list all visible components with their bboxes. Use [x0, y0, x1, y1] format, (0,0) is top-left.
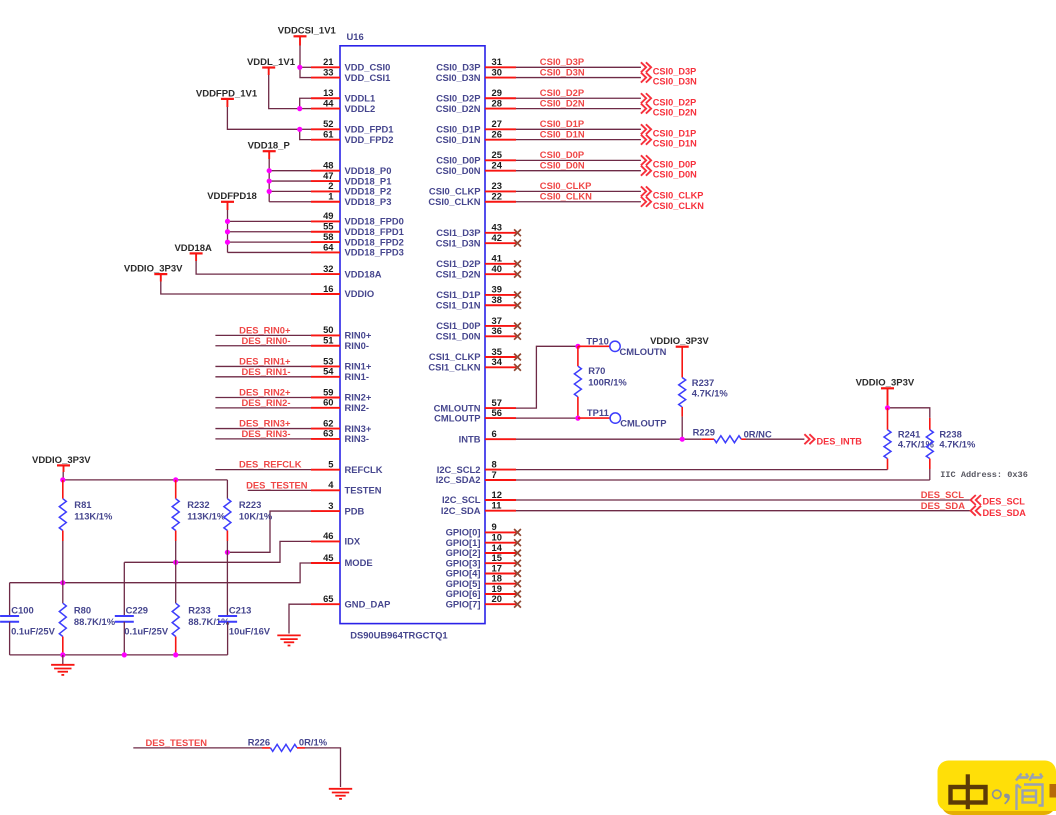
svg-text:4.7K/1%: 4.7K/1% — [939, 438, 976, 449]
power symbol VDDIO_3P3V (R241/R238) — [856, 378, 915, 389]
wire net CSI0_D0P — [516, 149, 641, 160]
svg-text:16: 16 — [323, 283, 333, 294]
wire R223 to C213/PDB node — [226, 541, 228, 616]
pin 49 VDD18_FPD0 stub (left) — [311, 210, 404, 226]
svg-text:CSI1_D2N: CSI1_D2N — [436, 268, 481, 279]
pin 64 VDD18_FPD3 stub (left) — [311, 241, 404, 257]
svg-text:DES_RIN1-: DES_RIN1- — [242, 366, 291, 377]
resistor R80 88.7K/1% — [59, 603, 115, 655]
port DES_SDA (input) — [971, 506, 1027, 519]
svg-text:VDD18_FPD3: VDD18_FPD3 — [345, 247, 404, 258]
svg-text:0R/NC: 0R/NC — [744, 429, 772, 440]
svg-text:35: 35 — [492, 346, 502, 357]
svg-text:100R/1%: 100R/1% — [588, 376, 627, 387]
svg-text:64: 64 — [323, 241, 334, 252]
junction rail/R232 — [173, 477, 178, 482]
svg-text:MODE: MODE — [345, 557, 373, 568]
ground (RC network) — [51, 665, 74, 675]
pin 19 GPIO[6] stub (right) — [446, 583, 521, 599]
resistor R229 0R/NC — [693, 427, 772, 443]
wire net CSI0_D0N — [516, 160, 641, 171]
svg-text:VDDFPD_1V1: VDDFPD_1V1 — [196, 88, 258, 99]
pin 10 GPIO[1] stub (right) — [446, 532, 521, 548]
power symbol VDDCSI_1V1 — [278, 26, 337, 37]
svg-text:55: 55 — [323, 221, 333, 232]
svg-text:C213: C213 — [229, 605, 251, 616]
pin 3 PDB stub (left) — [311, 500, 365, 516]
port CSI0_D0N (output) — [641, 166, 697, 180]
svg-text:CSI1_D0P: CSI1_D0P — [436, 320, 480, 331]
pin 30 CSI0_D3N stub (right) — [436, 66, 516, 82]
svg-text:IIC Address: 0x36: IIC Address: 0x36 — [940, 470, 1028, 480]
junction PDB/R223 — [225, 550, 230, 555]
wire PDB pin 3 to R223 node — [227, 511, 311, 552]
svg-text:6: 6 — [492, 428, 497, 439]
wire R81 to R80/MODE rail — [62, 541, 64, 603]
svg-text:VDD18_P3: VDD18_P3 — [345, 196, 392, 207]
wire R226 to ground — [305, 748, 341, 787]
svg-text:R237: R237 — [692, 377, 714, 388]
ground (R226) — [329, 789, 352, 799]
svg-text:VDD18_P1: VDD18_P1 — [345, 175, 392, 186]
junction MODE/R81-R80 — [60, 580, 65, 585]
svg-text:CSI0_D3N: CSI0_D3N — [436, 72, 481, 83]
wire net CSI0_D1N — [516, 128, 641, 139]
svg-text:PDB: PDB — [345, 505, 365, 516]
junction VDDIO/R241 — [885, 405, 890, 410]
svg-text:CSI0_D0P: CSI0_D0P — [540, 149, 584, 160]
wire I2C_SDA2 pin 7 to R238 — [516, 479, 930, 481]
svg-text:CMLOUTP: CMLOUTP — [620, 418, 666, 429]
svg-text:CSI0_CLKN: CSI0_CLKN — [428, 196, 480, 207]
pin 16 VDDIO stub (left) — [311, 283, 374, 299]
pin 59 RIN2+ stub (left) — [311, 386, 372, 402]
svg-text:33: 33 — [323, 66, 333, 77]
pin 61 VDD_FPD2 stub (left) — [311, 128, 393, 144]
junction rail/R233 — [173, 652, 178, 657]
junction VDDL_1V1/pin44 — [297, 106, 302, 111]
wire net DES_TESTEN (pin 4) — [246, 479, 311, 490]
svg-text:VDD18_P2: VDD18_P2 — [345, 186, 392, 197]
svg-text:CSI1_D3N: CSI1_D3N — [436, 237, 481, 248]
svg-text:DES_RIN3-: DES_RIN3- — [242, 428, 291, 439]
svg-text:CSI1_D1P: CSI1_D1P — [436, 289, 480, 300]
resistor R226 0R/1% — [248, 737, 328, 752]
wire net CSI0_D2P — [516, 87, 641, 98]
svg-text:DES_SCL: DES_SCL — [983, 496, 1026, 506]
junction VDD18_P/pin2 — [267, 189, 272, 194]
wire ground stem — [62, 655, 64, 664]
svg-text:VDD18_FPD2: VDD18_FPD2 — [345, 236, 404, 247]
svg-text:RIN0+: RIN0+ — [345, 330, 372, 341]
svg-text:I2C_SCL2: I2C_SCL2 — [437, 464, 481, 475]
svg-text:VDD18_P0: VDD18_P0 — [345, 165, 392, 176]
svg-text:CSI0_D1N: CSI0_D1N — [436, 134, 481, 145]
junction rail/R81 — [60, 477, 65, 482]
svg-text:CSI0_D2P: CSI0_D2P — [653, 97, 696, 107]
wire net DES_RIN1- — [215, 366, 311, 377]
pin 22 CSI0_CLKN stub (right) — [428, 191, 516, 207]
wire VDDCSI_1V1 to pins 21/33 — [300, 36, 311, 77]
svg-text:DES_RIN3+: DES_RIN3+ — [239, 418, 291, 429]
svg-text:11: 11 — [492, 500, 502, 511]
junction VDD18_P/pin47 — [267, 178, 272, 183]
wire net DES_RIN0+ — [215, 324, 311, 335]
pin 8 I2C_SCL2 stub (right) — [437, 458, 516, 474]
svg-text:VDD18A: VDD18A — [174, 243, 212, 254]
pin 17 GPIO[4] stub (right) — [446, 562, 521, 578]
svg-text:88.7K/1%: 88.7K/1% — [74, 616, 116, 627]
IME language overlay (bottom right) — [938, 761, 1056, 815]
svg-text:41: 41 — [492, 253, 502, 264]
pin 41 CSI1_D2P stub (right) — [436, 253, 521, 269]
svg-text:VDD18A: VDD18A — [345, 268, 382, 279]
svg-text:R232: R232 — [187, 499, 209, 510]
svg-text:24: 24 — [492, 160, 503, 171]
pin 60 RIN2- stub (left) — [311, 397, 369, 413]
wire R232 to R233/IDX rail — [175, 541, 177, 603]
svg-text:CMLOUTN: CMLOUTN — [620, 346, 667, 357]
svg-text:VDDIO_3P3V: VDDIO_3P3V — [856, 378, 915, 389]
svg-text:46: 46 — [323, 530, 333, 541]
pin 26 CSI0_D1N stub (right) — [436, 128, 516, 144]
pin 27 CSI0_D1P stub (right) — [436, 118, 516, 134]
svg-text:CSI0_D3N: CSI0_D3N — [540, 66, 585, 77]
wire MODE pin 45 to divider node — [10, 563, 311, 583]
svg-text:VDDIO_3P3V: VDDIO_3P3V — [124, 264, 183, 275]
note IIC address — [940, 470, 1028, 480]
capacitor C229 0.1uF/25V — [115, 562, 169, 655]
resistor R223 10K/1% — [224, 480, 273, 541]
wire net CSI0_D1P — [516, 118, 641, 129]
svg-text:62: 62 — [323, 417, 333, 428]
svg-text:49: 49 — [323, 210, 333, 221]
svg-text:26: 26 — [492, 128, 502, 139]
ground (GND_DAP) — [277, 635, 300, 645]
wire net DES_TESTEN (bottom) — [133, 737, 262, 748]
wire net CSI0_D3P — [516, 56, 641, 67]
svg-text:DES_TESTEN: DES_TESTEN — [246, 479, 308, 490]
pin 52 VDD_FPD1 stub (left) — [311, 118, 393, 134]
svg-text:0.1uF/25V: 0.1uF/25V — [124, 625, 169, 636]
wire R229 to DES_INTB port — [746, 438, 804, 440]
svg-text:CSI1_CLKP: CSI1_CLKP — [429, 351, 481, 362]
pin 12 I2C_SCL stub (right) — [442, 489, 516, 505]
power symbol VDDIO_3P3V (R237) — [650, 336, 709, 347]
svg-text:VDDL_1V1: VDDL_1V1 — [247, 57, 296, 68]
wire TP10 lead — [578, 345, 610, 347]
resistor R238 4.7K/1% — [926, 418, 976, 480]
svg-text:CSI0_D1N: CSI0_D1N — [540, 128, 585, 139]
pin 48 VDD18_P0 stub (left) — [311, 160, 391, 176]
svg-text:50: 50 — [323, 324, 333, 335]
svg-text:VDD18_FPD0: VDD18_FPD0 — [345, 216, 404, 227]
svg-text:CSI0_D2P: CSI0_D2P — [540, 87, 584, 98]
junction rail/C229 — [122, 652, 127, 657]
wire IDX pin 46 to divider node — [124, 541, 311, 562]
pin 55 VDD18_FPD1 stub (left) — [311, 221, 404, 237]
svg-text:REFCLK: REFCLK — [345, 464, 383, 475]
port CSI0_D2P (output) — [641, 93, 696, 107]
pin 11 I2C_SDA stub (right) — [441, 500, 516, 516]
pin 43 CSI1_D3P stub (right) — [436, 222, 521, 238]
wire VDD18_P to pins 48/47/2/1 — [269, 151, 311, 202]
resistor R70 100R/1% — [574, 346, 627, 418]
pin 18 GPIO[5] stub (right) — [446, 573, 521, 589]
pin 1 VDD18_P3 stub (left) — [311, 191, 391, 207]
svg-text:VDDFPD18: VDDFPD18 — [207, 191, 257, 202]
wire top rail (R81/R232/R223) — [63, 479, 228, 481]
svg-text:RIN3+: RIN3+ — [345, 423, 372, 434]
svg-text:30: 30 — [492, 66, 502, 77]
svg-text:DES_RIN1+: DES_RIN1+ — [239, 355, 291, 366]
svg-text:I2C_SDA: I2C_SDA — [441, 505, 481, 516]
pin 31 CSI0_D3P stub (right) — [436, 56, 516, 72]
pin 46 IDX stub (left) — [311, 530, 361, 546]
junction TP11/R70 — [575, 416, 580, 421]
junction VDDFPD18/pin49 — [225, 219, 230, 224]
svg-text:RIN0-: RIN0- — [345, 340, 369, 351]
port DES_SCL (input) — [971, 495, 1026, 506]
wire net DES_SCL — [516, 489, 971, 500]
wire bottom ground rail — [10, 654, 228, 656]
resistor R232 113K/1% — [172, 480, 226, 541]
wire net DES_RIN1+ — [215, 355, 311, 366]
wire net CSI0_D2N — [516, 97, 641, 108]
svg-text:0.1uF/25V: 0.1uF/25V — [11, 625, 56, 636]
port CSI0_D1P (output) — [641, 124, 696, 138]
power symbol VDDFPD18 — [207, 191, 257, 202]
svg-text:CSI0_D2N: CSI0_D2N — [540, 97, 585, 108]
svg-text:CSI0_D0N: CSI0_D0N — [436, 165, 481, 176]
svg-text:36: 36 — [492, 325, 502, 336]
svg-text:CSI0_D2P: CSI0_D2P — [436, 92, 480, 103]
svg-text:GND_DAP: GND_DAP — [345, 598, 391, 609]
resistor R81 113K/1% — [59, 480, 113, 541]
svg-text:58: 58 — [323, 231, 333, 242]
pin 32 VDD18A stub (left) — [311, 263, 382, 279]
junction VDDFPD18/pin58 — [225, 240, 230, 245]
svg-text:DES_RIN2-: DES_RIN2- — [242, 397, 291, 408]
junction VDDFPD18/pin55 — [225, 229, 230, 234]
pin 14 GPIO[2] stub (right) — [446, 542, 521, 558]
svg-text:CSI0_D1P: CSI0_D1P — [540, 118, 584, 129]
svg-text:CSI0_CLKP: CSI0_CLKP — [653, 190, 704, 200]
op-amp U16 IC body DS90UB964TRGCTQ1 — [340, 46, 485, 624]
svg-text:37: 37 — [492, 315, 502, 326]
wire VDDIO to R241/R238 — [888, 388, 930, 418]
pin 53 RIN1+ stub (left) — [311, 355, 372, 371]
pin 51 RIN0- stub (left) — [311, 335, 369, 351]
svg-text:R223: R223 — [239, 499, 261, 510]
wire VDDIO_3P3V to pin 16 — [161, 274, 311, 294]
svg-text:DES_REFCLK: DES_REFCLK — [239, 459, 302, 470]
pin 24 CSI0_D0N stub (right) — [436, 160, 516, 176]
svg-text:CSI0_D0P: CSI0_D0P — [653, 159, 696, 169]
svg-text:5: 5 — [328, 458, 333, 469]
power symbol VDD18A — [174, 243, 212, 254]
pin 38 CSI1_D1N stub (right) — [436, 294, 521, 310]
svg-text:51: 51 — [323, 335, 333, 346]
svg-text:47: 47 — [323, 170, 333, 181]
port CSI0_D2N (output) — [641, 104, 697, 118]
svg-text:CMLOUTP: CMLOUTP — [434, 412, 480, 423]
pin 15 GPIO[3] stub (right) — [446, 552, 521, 568]
pin 36 CSI1_D0N stub (right) — [436, 325, 521, 341]
svg-text:40: 40 — [492, 263, 502, 274]
pin 45 MODE stub (left) — [311, 552, 373, 568]
port CSI0_D3P (output) — [641, 62, 696, 76]
port CSI0_D0P (output) — [641, 155, 696, 169]
svg-text:CSI0_D1P: CSI0_D1P — [653, 128, 696, 138]
testpoint TP10 — [586, 335, 666, 357]
svg-text:DS90UB964TRGCTQ1: DS90UB964TRGCTQ1 — [350, 630, 447, 641]
svg-text:10uF/16V: 10uF/16V — [229, 625, 271, 636]
pin 6 INTB stub (right) — [459, 428, 516, 444]
wire net DES_RIN3- — [215, 428, 311, 439]
wire TP11 lead — [578, 417, 610, 419]
pin 65 GND_DAP stub (left) — [311, 593, 390, 609]
svg-text:DES_TESTEN: DES_TESTEN — [146, 737, 208, 748]
svg-text:0R/1%: 0R/1% — [299, 737, 328, 748]
svg-text:R229: R229 — [693, 427, 715, 438]
svg-text:CSI1_D1N: CSI1_D1N — [436, 299, 481, 310]
svg-text:C100: C100 — [11, 605, 33, 616]
svg-text:CSI0_D0N: CSI0_D0N — [653, 170, 697, 180]
svg-text:GPIO[7]: GPIO[7] — [446, 598, 481, 609]
U16 reference designator — [347, 31, 364, 42]
wire VDDIO_3P3V riser — [62, 465, 64, 480]
svg-text:DES_RIN0-: DES_RIN0- — [242, 335, 291, 346]
svg-text:DES_SCL: DES_SCL — [921, 489, 965, 500]
svg-text:C229: C229 — [126, 605, 148, 616]
pin 63 RIN3- stub (left) — [311, 428, 369, 444]
svg-text:38: 38 — [492, 294, 502, 305]
svg-text:61: 61 — [323, 128, 333, 139]
svg-text:RIN1-: RIN1- — [345, 371, 369, 382]
wire net DES_RIN3+ — [215, 418, 311, 429]
svg-text:VDD18_P: VDD18_P — [248, 141, 291, 152]
junction VDDFPD_1V1/pin52 — [297, 127, 302, 132]
svg-text:VDDCSI_1V1: VDDCSI_1V1 — [278, 26, 337, 37]
svg-text:DES_SDA: DES_SDA — [921, 500, 966, 511]
svg-text:U16: U16 — [347, 31, 364, 42]
svg-text:R233: R233 — [188, 605, 210, 616]
power symbol VDD18_P — [248, 141, 291, 152]
svg-text:13: 13 — [323, 87, 333, 98]
pin 34 CSI1_CLKN stub (right) — [428, 356, 520, 372]
svg-text:42: 42 — [492, 232, 502, 243]
testpoint TP11 — [587, 407, 667, 429]
svg-text:CSI0_CLKN: CSI0_CLKN — [653, 201, 704, 211]
svg-text:CSI0_D2N: CSI0_D2N — [436, 103, 481, 114]
svg-text:VDD18_FPD1: VDD18_FPD1 — [345, 226, 404, 237]
port CSI0_CLKP (output) — [641, 186, 703, 200]
svg-text:VDDIO_3P3V: VDDIO_3P3V — [650, 336, 709, 347]
svg-text:10K/1%: 10K/1% — [239, 511, 273, 522]
wire VDDL_1V1 to pins 13/44 — [269, 68, 311, 109]
svg-text:CSI1_D0N: CSI1_D0N — [436, 331, 481, 342]
svg-text:44: 44 — [323, 97, 334, 108]
svg-text:8: 8 — [492, 458, 497, 469]
svg-text:VDD_CSI1: VDD_CSI1 — [345, 72, 391, 83]
wire net CSI0_D3N — [516, 66, 641, 77]
pin 56 CMLOUTP stub (right) — [434, 407, 516, 423]
svg-text:VDDL2: VDDL2 — [345, 103, 376, 114]
svg-text:43: 43 — [492, 222, 502, 233]
svg-text:3: 3 — [328, 500, 333, 511]
pin 50 RIN0+ stub (left) — [311, 324, 372, 340]
svg-text:7: 7 — [492, 469, 497, 480]
svg-text:INTB: INTB — [459, 433, 481, 444]
svg-text:CSI0_CLKP: CSI0_CLKP — [429, 186, 481, 197]
svg-text:DES_SDA: DES_SDA — [983, 508, 1027, 518]
svg-text:CSI1_CLKN: CSI1_CLKN — [428, 362, 480, 373]
svg-text:56: 56 — [492, 407, 502, 418]
svg-text:CSI0_D3N: CSI0_D3N — [653, 77, 697, 87]
junction IDX/R232-R233 — [173, 560, 178, 565]
svg-text:CSI0_D2N: CSI0_D2N — [653, 108, 697, 118]
svg-text:VDD_FPD2: VDD_FPD2 — [345, 134, 394, 145]
svg-text:TESTEN: TESTEN — [345, 485, 382, 496]
pin 13 VDDL1 stub (left) — [311, 87, 375, 103]
svg-text:CSI1_D3P: CSI1_D3P — [436, 227, 480, 238]
wire net CSI0_CLKN — [516, 191, 641, 202]
svg-text:R70: R70 — [588, 365, 605, 376]
svg-text:52: 52 — [323, 118, 333, 129]
svg-text:CSI0_D1P: CSI0_D1P — [436, 124, 480, 135]
svg-text:34: 34 — [492, 356, 503, 367]
svg-text:53: 53 — [323, 355, 333, 366]
svg-text:R226: R226 — [248, 737, 270, 748]
svg-text:54: 54 — [323, 366, 334, 377]
svg-text:RIN1+: RIN1+ — [345, 361, 372, 372]
pin 62 RIN3+ stub (left) — [311, 417, 372, 433]
pin 37 CSI1_D0P stub (right) — [436, 315, 521, 331]
svg-text:113K/1%: 113K/1% — [187, 511, 226, 522]
pin 35 CSI1_CLKP stub (right) — [429, 346, 521, 362]
pin 4 TESTEN stub (left) — [311, 479, 382, 495]
svg-text:20: 20 — [492, 593, 502, 604]
svg-text:DES_INTB: DES_INTB — [817, 437, 863, 447]
pin 29 CSI0_D2P stub (right) — [436, 87, 516, 103]
wire INTB pin 6 to R229 — [516, 438, 701, 440]
svg-text:CSI0_D0P: CSI0_D0P — [436, 155, 480, 166]
pin 40 CSI1_D2N stub (right) — [436, 263, 521, 279]
svg-text:RIN3-: RIN3- — [345, 433, 369, 444]
svg-text:VDDIO: VDDIO — [345, 288, 375, 299]
junction VDDCSI_1V1/pin21 — [297, 65, 302, 70]
svg-text:2: 2 — [328, 180, 333, 191]
svg-text:CSI0_D3P: CSI0_D3P — [653, 66, 696, 76]
svg-text:R81: R81 — [74, 499, 91, 510]
svg-text:DES_RIN0+: DES_RIN0+ — [239, 324, 291, 335]
svg-text:23: 23 — [492, 180, 502, 191]
resistor R241 4.7K/1% — [884, 408, 935, 470]
svg-text:4: 4 — [328, 479, 334, 490]
resistor R233 88.7K/1% — [172, 603, 230, 655]
port CSI0_D1N (output) — [641, 135, 697, 149]
svg-text:RIN2-: RIN2- — [345, 402, 369, 413]
junction TP10/R70 — [575, 344, 580, 349]
pin 47 VDD18_P1 stub (left) — [311, 170, 391, 186]
svg-text:12: 12 — [492, 489, 502, 500]
svg-text:CSI0_D0N: CSI0_D0N — [540, 160, 585, 171]
pin 20 GPIO[7] stub (right) — [446, 593, 521, 609]
svg-text:32: 32 — [323, 263, 333, 274]
pin 54 RIN1- stub (left) — [311, 366, 369, 382]
pin 25 CSI0_D0P stub (right) — [436, 149, 516, 165]
